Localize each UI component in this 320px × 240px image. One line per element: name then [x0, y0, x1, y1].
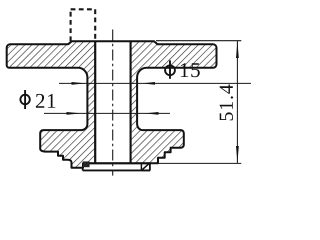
phi21 value text — [36, 94, 55, 108]
51.4 bottom arrowhead — [236, 146, 239, 163]
phi21 symbol — [20, 90, 29, 109]
phi15 left arrowhead — [72, 82, 86, 85]
pedestal left ring block — [83, 161, 90, 167]
part outline — [7, 41, 217, 168]
pedestal left edge — [82, 167, 84, 171]
pedestal bottom edge — [83, 169, 151, 171]
pedestal top edge — [83, 162, 150, 164]
hidden detail dashed rectangle — [71, 9, 96, 41]
bore wall left — [94, 41, 96, 163]
center line — [112, 30, 114, 176]
bore wall right — [130, 41, 132, 163]
phi15 right arrowhead — [142, 82, 155, 85]
pedestal right ring block with diagonal — [141, 163, 150, 171]
pedestal right edge — [149, 163, 151, 170]
dimension phi21 line — [44, 112, 170, 114]
phi15 symbol — [165, 60, 175, 78]
hatched cross-section of flanged bushing body — [7, 41, 217, 168]
extension line bottom for 51.4 — [152, 162, 241, 164]
51.4 value text — [220, 85, 234, 121]
phi15 value text — [181, 63, 200, 77]
dimension 51.4 line — [236, 41, 238, 164]
extension line top for 51.4 — [156, 40, 241, 42]
dimension phi15 line — [59, 82, 251, 84]
phi21 left arrowhead — [67, 112, 82, 115]
51.4 top arrowhead — [236, 41, 239, 58]
phi21 right arrowhead — [145, 112, 159, 115]
